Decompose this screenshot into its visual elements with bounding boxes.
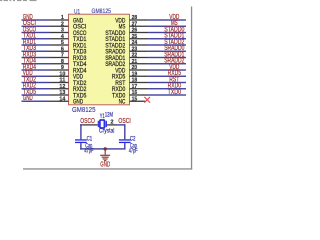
wire net RXD3 (pin 7): [22, 57, 51, 58]
sheet border right edge: [191, 7, 192, 170]
wire net TXD3 (pin 6): [22, 51, 51, 52]
wire net TXD5 (pin 13): [22, 94, 51, 95]
svg-text:12: 12: [59, 84, 65, 90]
wire net VDD (pin 10): [22, 76, 51, 77]
capacitor C1: [75, 139, 87, 143]
svg-text:25: 25: [132, 34, 138, 40]
wire OSCO horizontal stub: [80, 124, 82, 125]
svg-text:9: 9: [61, 65, 64, 71]
wire net RXD0 (pin 17): [148, 88, 186, 89]
svg-text:GND: GND: [23, 95, 33, 102]
ground symbol: [100, 149, 110, 161]
svg-text:18: 18: [132, 78, 138, 84]
pin 10 stub: [50, 76, 69, 77]
pin 26 stub: [130, 32, 149, 33]
svg-text:4: 4: [61, 34, 64, 40]
svg-text:19: 19: [132, 71, 138, 77]
pin 27 stub: [130, 26, 149, 27]
svg-text:GM8125: GM8125: [72, 105, 96, 114]
no-ERC marker red X on pin 15: [145, 97, 150, 102]
op-amp-style IC body U1 GM8125: [69, 14, 130, 105]
pin 5 stub: [50, 44, 69, 45]
wire net STADD1 (pin 25): [148, 38, 186, 39]
svg-text:Crystal: Crystal: [99, 128, 115, 135]
wire net OSCO (pin 3): [22, 32, 51, 33]
svg-text:GND: GND: [100, 162, 110, 169]
wire net VDD (pin 28): [148, 19, 186, 20]
wire net SRADD0 (pin 23): [148, 51, 186, 52]
svg-text:5: 5: [61, 40, 64, 46]
pin 16 stub: [130, 94, 149, 95]
wire net RXD1 (pin 5): [22, 44, 51, 45]
wire net STADD2 (pin 24): [148, 44, 186, 45]
pin 18 stub: [130, 82, 149, 83]
pin 14 stub: [50, 101, 69, 102]
pin 17 stub: [130, 88, 149, 89]
wire net VDD (pin 20): [148, 69, 186, 70]
pin 2 stub: [50, 26, 69, 27]
wire net STADD0 (pin 26): [148, 32, 186, 33]
pin 13 stub: [50, 94, 69, 95]
pin 21 stub: [130, 63, 149, 64]
wire net GND (pin 14): [22, 101, 51, 102]
wire vertical right (OSCI to C2): [124, 124, 125, 139]
svg-text:17: 17: [132, 84, 138, 90]
pin 19 stub: [130, 76, 149, 77]
wire net TXD1 (pin 4): [22, 38, 51, 39]
svg-text:23: 23: [132, 46, 138, 52]
wire vertical left (C1 to ground rail): [80, 143, 81, 150]
svg-text:3: 3: [61, 28, 64, 34]
svg-text:27: 27: [132, 21, 138, 27]
svg-text:U1: U1: [74, 8, 80, 15]
wire ground rail horizontal: [80, 148, 125, 149]
junction dot at ground tap: [104, 147, 107, 150]
svg-text:OSCO: OSCO: [80, 118, 95, 125]
pin 4 stub: [50, 38, 69, 39]
svg-text:24: 24: [132, 40, 138, 46]
svg-text:22: 22: [132, 53, 138, 59]
sheet border bottom edge: [23, 168, 192, 169]
svg-text:26: 26: [132, 28, 138, 34]
wire net RXD4 (pin 9): [22, 69, 51, 70]
pin 12 stub: [50, 88, 69, 89]
svg-text:12M: 12M: [105, 112, 113, 119]
pin 11 stub: [50, 82, 69, 83]
pin 7 stub: [50, 57, 69, 58]
svg-text:OSCI: OSCI: [118, 118, 130, 125]
svg-text:13: 13: [59, 90, 65, 96]
crystal Y1 pin 2 stub: [106, 124, 117, 125]
pin 25 stub: [130, 38, 149, 39]
pin 6 stub: [50, 51, 69, 52]
wire net OSCI (pin 2): [22, 26, 51, 27]
pin 3 stub: [50, 32, 69, 33]
wire OSCI horizontal: [118, 124, 126, 125]
wire net RST (pin 18): [148, 82, 186, 83]
wire net GND (pin 1): [22, 19, 51, 20]
wire vertical left (OSCO to C1): [80, 124, 81, 139]
svg-text:14: 14: [59, 96, 65, 102]
pin 22 stub: [130, 57, 149, 58]
pin 8 stub: [50, 63, 69, 64]
wire net SRADD2 (pin 21): [148, 63, 186, 64]
pin 28 stub: [130, 19, 149, 20]
svg-text:2: 2: [61, 21, 64, 27]
svg-text:6: 6: [61, 46, 64, 52]
crystal Y1 pin 1 stub: [82, 124, 97, 125]
wire net TXD2 (pin 11): [22, 82, 51, 83]
svg-text:10: 10: [59, 71, 65, 77]
svg-text:15: 15: [132, 96, 138, 102]
pin 9 stub: [50, 69, 69, 70]
svg-text:28: 28: [132, 15, 138, 21]
pin 24 stub: [130, 44, 149, 45]
pin 20 stub: [130, 69, 149, 70]
svg-text:20: 20: [132, 65, 138, 71]
svg-text:8: 8: [61, 59, 64, 65]
svg-text:2: 2: [111, 119, 114, 125]
svg-text:7: 7: [61, 53, 64, 59]
svg-text:GM8125: GM8125: [92, 8, 112, 15]
svg-text:NC: NC: [119, 99, 126, 106]
pin 1 stub: [50, 19, 69, 20]
wire net RXD2 (pin 12): [22, 88, 51, 89]
svg-text:47pF: 47pF: [129, 148, 138, 155]
wire net RXD5 (pin 19): [148, 76, 186, 77]
svg-text:21: 21: [132, 59, 138, 65]
wire net TXD0 (pin 16): [148, 94, 186, 95]
svg-text:1: 1: [61, 15, 64, 21]
wire net MS (pin 27): [148, 26, 186, 27]
wire vertical right (C2 to ground rail): [124, 143, 125, 150]
pin 15 stub (NC): [130, 101, 146, 102]
svg-text:GND: GND: [73, 99, 83, 106]
wire net SRADD1 (pin 22): [148, 57, 186, 58]
capacitor C2: [119, 139, 131, 143]
pin 23 stub: [130, 51, 149, 52]
svg-text:TXD0: TXD0: [168, 89, 181, 96]
crystal Y1 symbol: [98, 120, 107, 128]
svg-text:11: 11: [59, 78, 65, 84]
svg-text:16: 16: [132, 90, 138, 96]
wire net TXD4 (pin 8): [22, 63, 51, 64]
cropped toolbar text remnant dashes: [0, 0, 37, 1]
